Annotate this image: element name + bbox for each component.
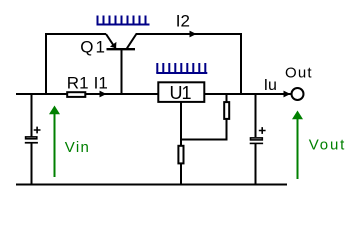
capacitor C2 (output, polarized) [250, 127, 266, 144]
wire: Q1 base lead [121, 49, 123, 94]
Q1 emitter arrow [110, 42, 117, 48]
wire: right capacitor top lead [255, 94, 257, 137]
Q1 base bar [107, 48, 136, 50]
regulator U1 [158, 82, 204, 102]
ground rail [16, 184, 287, 186]
svg-text:Vout: Vout [309, 136, 345, 153]
svg-text:R1: R1 [67, 74, 89, 93]
resistor R1 [67, 92, 85, 97]
heatsink above Q1 [97, 16, 150, 25]
svg-text:Iu: Iu [264, 77, 277, 94]
heatsink above U1 [156, 63, 207, 73]
wire: left capacitor top lead [31, 94, 33, 137]
wire: U1 bottom lead down to node [180, 103, 182, 146]
Vout arrow [292, 111, 303, 180]
svg-text:Q1: Q1 [80, 38, 105, 57]
svg-text:Vin: Vin [65, 139, 89, 156]
wire: Q1 collector to right corner [136, 33, 242, 35]
wire: right capacitor bottom lead [255, 144, 257, 185]
Q1 emitter diagonal [106, 34, 116, 48]
wire: vertical down from top-right corner [240, 33, 242, 94]
wire: node to ground through R3 bottom [180, 164, 182, 185]
wire: R2 top lead [226, 94, 228, 102]
wire: R2 bottom lead and horizontal to node [181, 120, 227, 140]
current arrow I2 [190, 31, 197, 38]
resistor R3 [178, 146, 183, 164]
wire: output rail [204, 93, 291, 95]
current arrow I1 [100, 91, 107, 98]
Q1 collector diagonal [127, 35, 137, 50]
node Out terminal [292, 88, 304, 100]
current arrow Iu [284, 91, 291, 98]
resistor R2 [224, 102, 229, 119]
svg-text:Out: Out [285, 65, 312, 82]
wire: main input rail [16, 93, 159, 95]
svg-text:I1: I1 [94, 74, 108, 93]
capacitor C1 (input, polarized) [25, 127, 41, 144]
transistor Q1 [106, 34, 136, 49]
wire: left capacitor bottom lead [31, 143, 33, 185]
svg-text:I2: I2 [176, 12, 190, 31]
svg-text:U1: U1 [170, 83, 192, 103]
Vin arrow [49, 106, 60, 178]
wire: up to Q1 emitter [46, 34, 106, 95]
